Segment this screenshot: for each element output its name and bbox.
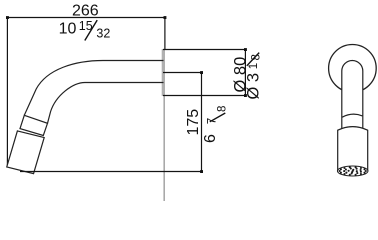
shower arm tube (side view) inner edge xyxy=(48,83,164,124)
shower arm tube (side view) outer edge xyxy=(24,61,163,116)
svg-text:10: 10 xyxy=(59,21,77,38)
wire: 175 top extension xyxy=(163,72,202,74)
wire: flange top extension (Ø80) xyxy=(163,49,245,51)
connector band (side view) xyxy=(20,115,48,135)
svg-text:6: 6 xyxy=(202,134,219,143)
node: left dimension terminator dot xyxy=(6,16,9,19)
arm stub (front view) xyxy=(342,61,363,129)
wire: left extension line xyxy=(6,18,8,166)
label: 10 15/32 xyxy=(59,19,111,40)
svg-text:175: 175 xyxy=(185,109,202,136)
wire: right extension line xyxy=(164,18,166,50)
svg-text:8: 8 xyxy=(251,54,263,60)
node: 175 bottom dot xyxy=(200,170,203,173)
wall line (gray) xyxy=(163,96,165,201)
wire: 175 dimension line xyxy=(201,73,203,172)
wire: Ø80 dimension line xyxy=(244,50,246,96)
label: Ø80 xyxy=(231,57,249,93)
flange circle (front view) xyxy=(329,45,377,93)
wire: flange bottom extension (Ø80) xyxy=(163,95,245,97)
label: 175 xyxy=(185,109,202,136)
node: Ø80 bottom dot xyxy=(244,94,247,97)
wire: dimension line 266 xyxy=(7,17,165,19)
head bottom ellipse (spray face) xyxy=(337,166,368,176)
label: 6 7/8 xyxy=(202,134,219,143)
head body (side view) xyxy=(7,131,44,174)
flange disc (gray, side view) xyxy=(162,49,165,96)
head body (front view) xyxy=(338,127,368,171)
node: Ø80 top dot xyxy=(244,48,247,51)
label: Ø3 1/8 xyxy=(244,73,262,100)
svg-text:1: 1 xyxy=(248,63,260,69)
svg-text:8: 8 xyxy=(216,106,228,112)
wire: bottom reference line xyxy=(20,171,202,173)
svg-text:32: 32 xyxy=(96,26,110,40)
node: 175 top dot xyxy=(200,71,203,74)
spray nozzle dots xyxy=(339,166,367,176)
svg-text:266: 266 xyxy=(72,3,99,20)
connector band arc (front view) xyxy=(342,114,362,117)
node: right dimension terminator dot xyxy=(164,16,167,19)
svg-text:Ø 3: Ø 3 xyxy=(244,73,262,100)
